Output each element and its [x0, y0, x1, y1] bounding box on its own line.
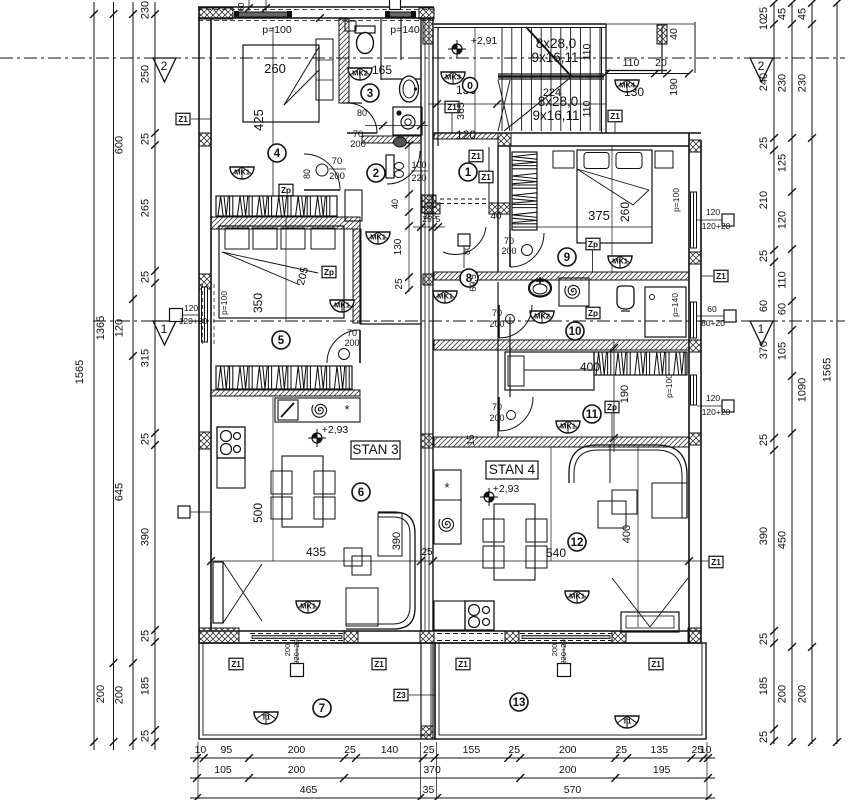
- svg-text:69,5: 69,5: [468, 274, 478, 292]
- door WC3: [347, 103, 377, 133]
- right dimension column lines: [773, 2, 775, 744]
- svg-text:3: 3: [367, 88, 373, 100]
- bath 10 top wall: [434, 272, 689, 280]
- svg-text:1: 1: [758, 322, 765, 336]
- svg-text:110: 110: [581, 100, 593, 117]
- svg-text:200: 200: [550, 644, 559, 657]
- svg-text:10: 10: [700, 744, 712, 756]
- svg-text:25: 25: [140, 271, 152, 283]
- svg-text:2: 2: [373, 168, 379, 180]
- right wall hatch blocks: [689, 140, 701, 152]
- svg-text:125: 125: [777, 154, 789, 172]
- left wall hatch blocks: [199, 133, 211, 146]
- STAN 3 label: [351, 441, 400, 459]
- Zp box room5: [322, 266, 336, 278]
- svg-text:240: 240: [758, 73, 770, 91]
- svg-text:120: 120: [706, 207, 720, 217]
- pillows room 9: [584, 153, 609, 169]
- left wall: [198, 8, 200, 643]
- interior dim line hall: [408, 140, 410, 292]
- svg-text:60: 60: [237, 2, 246, 11]
- bed room 4: [243, 45, 319, 122]
- shaft box corner: [345, 190, 362, 221]
- svg-text:400: 400: [621, 525, 633, 543]
- svg-text:80+20: 80+20: [701, 318, 725, 328]
- svg-text:210: 210: [758, 191, 770, 209]
- svg-text:70: 70: [332, 156, 343, 167]
- svg-text:p=100: p=100: [664, 374, 674, 398]
- room number 1: [459, 163, 477, 181]
- svg-text:95: 95: [221, 744, 233, 756]
- svg-text:0: 0: [467, 80, 473, 92]
- svg-text:25: 25: [140, 730, 152, 742]
- svg-text:9x16,11: 9x16,11: [532, 108, 579, 123]
- svg-text:25: 25: [758, 7, 770, 19]
- Zp box bath10: [586, 307, 600, 319]
- svg-text:200: 200: [797, 685, 809, 703]
- door bath10: [499, 305, 532, 338]
- svg-text:110: 110: [581, 43, 593, 60]
- svg-text:120+20: 120+20: [179, 316, 208, 326]
- svg-text:110: 110: [777, 271, 789, 289]
- fan MK1 corridor STAN3: [366, 232, 390, 244]
- top wall corner hatch left: [199, 8, 233, 19]
- room number 4: [268, 144, 286, 162]
- fan MK2: [348, 68, 372, 80]
- bed room 5: [219, 226, 344, 318]
- svg-text:Z1: Z1: [716, 272, 726, 281]
- svg-text:130: 130: [393, 238, 404, 255]
- Z markers terraces: [229, 658, 243, 670]
- svg-text:Zp: Zp: [588, 309, 598, 318]
- svg-text:MK1: MK1: [612, 257, 628, 266]
- right wall window bath10: [691, 302, 697, 338]
- svg-text:5: 5: [278, 335, 285, 347]
- section line 2 (dash-dot horizontal top): [0, 57, 845, 59]
- svg-text:230: 230: [140, 1, 152, 19]
- wardrobe column room4: [316, 39, 333, 100]
- svg-text:MK1: MK1: [560, 422, 576, 431]
- svg-text:350: 350: [251, 293, 265, 313]
- svg-text:1: 1: [161, 322, 168, 336]
- basin bath10: [529, 280, 551, 297]
- room number 6: [352, 483, 370, 501]
- staircase mid handrail: [498, 73, 604, 75]
- room number 5: [272, 331, 290, 349]
- spot +2,93 STAN3: [308, 429, 326, 447]
- svg-text:465: 465: [300, 784, 318, 796]
- svg-text:1090: 1090: [797, 378, 809, 402]
- svg-text:120: 120: [114, 319, 126, 337]
- svg-text:STAN 4: STAN 4: [489, 462, 536, 477]
- svg-text:MK1: MK1: [569, 592, 585, 601]
- Zp box room11: [605, 401, 619, 413]
- svg-text:8x28,0: 8x28,0: [536, 36, 577, 51]
- svg-text:60: 60: [758, 300, 770, 312]
- svg-text:9: 9: [564, 252, 570, 264]
- svg-text:185: 185: [140, 677, 152, 695]
- svg-text:315: 315: [140, 349, 152, 367]
- fan MK1 room4: [230, 167, 254, 179]
- svg-text:570: 570: [564, 784, 582, 796]
- svg-text:25: 25: [344, 744, 356, 756]
- svg-text:p=100: p=100: [219, 291, 229, 315]
- svg-text:120: 120: [706, 393, 720, 403]
- svg-text:105: 105: [214, 764, 232, 776]
- svg-text:195: 195: [653, 764, 671, 776]
- fan MK4: [615, 80, 639, 92]
- svg-text:T1: T1: [623, 717, 632, 726]
- svg-text:p=140: p=140: [670, 293, 680, 317]
- svg-text:200: 200: [329, 171, 345, 182]
- dining table STAN4: [494, 504, 535, 580]
- interior dim line y561: [211, 560, 710, 562]
- TV STAN4: [621, 612, 679, 632]
- svg-text:220: 220: [411, 173, 426, 183]
- svg-text:25: 25: [421, 547, 433, 558]
- top wall left part: [198, 6, 434, 8]
- left dimension column lines: [93, 2, 95, 750]
- svg-text:2: 2: [161, 59, 168, 73]
- svg-text:15: 15: [466, 434, 477, 446]
- svg-text:140: 140: [381, 744, 399, 756]
- svg-text:265: 265: [140, 199, 152, 217]
- stairwell bottom wall / room9 top wall: [434, 132, 701, 134]
- dim witness living12: [550, 447, 552, 561]
- section marker 2 right: [750, 58, 773, 82]
- window label left wall: [170, 309, 183, 322]
- shaft cabinet bath10 p=140: [645, 287, 686, 337]
- svg-text:200: 200: [559, 744, 577, 756]
- svg-text:600: 600: [114, 136, 126, 154]
- wall marker left y512: [178, 506, 190, 518]
- room number 11: [583, 405, 601, 423]
- room 4 dim 260: [272, 27, 274, 196]
- stove STAN4: [465, 601, 494, 630]
- TV STAN3: [213, 562, 223, 623]
- svg-text:Z1: Z1: [651, 660, 661, 669]
- door hall2 arc: [387, 151, 420, 184]
- svg-text:*: *: [444, 480, 449, 495]
- svg-text:425: 425: [251, 109, 266, 131]
- svg-text:70: 70: [347, 328, 357, 338]
- room number 12: [568, 533, 586, 551]
- svg-text:25: 25: [394, 278, 405, 290]
- svg-text:Z1: Z1: [178, 115, 188, 124]
- WC3 / shaft wall: [380, 19, 382, 80]
- Z1 left wall marker: [176, 113, 190, 125]
- svg-text:1565: 1565: [822, 358, 834, 382]
- svg-text:25: 25: [758, 731, 770, 743]
- svg-text:Zp: Zp: [607, 403, 617, 412]
- svg-text:190: 190: [668, 78, 680, 96]
- svg-text:+2,93: +2,93: [493, 483, 520, 495]
- svg-text:110: 110: [623, 57, 640, 69]
- door room4 (arc): [304, 154, 340, 190]
- svg-text:45: 45: [797, 8, 809, 20]
- stairwell top wall: [434, 23, 606, 25]
- svg-text:60: 60: [777, 303, 789, 315]
- svg-text:25: 25: [758, 137, 770, 149]
- svg-text:80: 80: [357, 108, 367, 118]
- svg-text:MK2: MK2: [534, 312, 550, 321]
- right wall window room11: [691, 375, 697, 405]
- svg-text:200: 200: [489, 319, 504, 329]
- svg-text:Z1: Z1: [471, 152, 481, 161]
- kitchen counter top row STAN3: [275, 398, 360, 422]
- svg-text:365: 365: [455, 102, 467, 120]
- hatch block hall2: [421, 195, 433, 213]
- door room11: [499, 397, 533, 431]
- svg-text:370: 370: [758, 341, 770, 359]
- svg-text:MK2: MK2: [352, 69, 368, 78]
- svg-text:120: 120: [184, 303, 198, 313]
- stove STAN3: [217, 427, 245, 458]
- svg-text:25: 25: [508, 744, 520, 756]
- room number 8: [460, 269, 478, 287]
- svg-text:1365: 1365: [95, 316, 107, 340]
- sofa STAN4: [569, 445, 687, 518]
- toilet bath10: [617, 286, 634, 309]
- svg-text:190: 190: [619, 385, 631, 403]
- svg-text:120+20: 120+20: [702, 407, 731, 417]
- washing machine WC3: [393, 107, 422, 135]
- svg-text:Z1: Z1: [374, 660, 384, 669]
- fan MK1 hall8: [433, 291, 457, 303]
- stair landing right edge: [661, 27, 663, 73]
- svg-text:T1: T1: [262, 713, 271, 722]
- svg-text:70: 70: [504, 236, 514, 246]
- svg-text:40: 40: [390, 199, 400, 209]
- room number 10: [566, 322, 584, 340]
- svg-text:105: 105: [777, 342, 789, 360]
- hall walls STAN3 lower bath: [359, 229, 361, 324]
- dim witness room5: [285, 218, 287, 320]
- svg-text:Zp: Zp: [281, 186, 291, 195]
- svg-text:10: 10: [758, 18, 770, 30]
- left wall window (glazing): [202, 287, 208, 342]
- top wall window 2: [387, 12, 414, 17]
- corridor wall STAN4 vertical: [497, 282, 499, 437]
- blanket fold room 9: [577, 169, 649, 190]
- sofa STAN3: [346, 512, 415, 629]
- wardrobe room 9 (vertical zigzag): [512, 152, 537, 230]
- svg-text:7: 7: [319, 703, 325, 715]
- svg-text:p=100: p=100: [671, 188, 681, 212]
- staircase treads: [501, 28, 503, 132]
- side tables STAN3: [344, 548, 362, 566]
- svg-text:45: 45: [777, 8, 789, 20]
- svg-text:390: 390: [391, 532, 403, 550]
- WC3 left wall: [339, 19, 349, 103]
- svg-text:25: 25: [758, 633, 770, 645]
- svg-text:4: 4: [274, 148, 281, 160]
- svg-text:10: 10: [569, 326, 582, 338]
- section line 1 (dash-dot horizontal middle): [93, 320, 845, 322]
- svg-text:MK1: MK1: [370, 233, 386, 242]
- dining table STAN3: [282, 456, 323, 527]
- door room5: [327, 330, 360, 363]
- wardrobe room 5 (zigzag band): [216, 366, 352, 389]
- svg-text:p=100: p=100: [262, 24, 292, 36]
- kitchen opening STAN4 (dashed): [437, 633, 503, 635]
- svg-text:MK1: MK1: [234, 168, 250, 177]
- sliding door STAN3 (dashed): [250, 633, 344, 635]
- svg-text:200: 200: [114, 686, 126, 704]
- svg-text:200: 200: [288, 744, 306, 756]
- svg-text:Z1: Z1: [458, 660, 468, 669]
- svg-text:200: 200: [489, 413, 504, 423]
- terrace divider: [420, 643, 422, 739]
- room number 13: [510, 693, 528, 711]
- wardrobe room 4 (zigzag band): [216, 196, 337, 216]
- svg-text:200: 200: [559, 764, 577, 776]
- svg-text:25: 25: [423, 744, 435, 756]
- spot +2,93 STAN4: [480, 488, 498, 506]
- section marker 2 left: [153, 58, 176, 82]
- svg-text:185: 185: [758, 677, 770, 695]
- svg-text:Zp: Zp: [588, 240, 598, 249]
- svg-text:9x16,11: 9x16,11: [531, 50, 578, 65]
- svg-text:20: 20: [655, 57, 667, 69]
- balcony right edge: [694, 22, 696, 73]
- fan MK1 living4: [565, 591, 589, 603]
- svg-text:13: 13: [513, 697, 526, 709]
- svg-text:260: 260: [264, 61, 286, 76]
- svg-text:120: 120: [456, 128, 476, 142]
- corridor wall strip STAN3 (hatched): [211, 217, 360, 229]
- svg-text:200: 200: [501, 246, 516, 256]
- bottom witness lines: [197, 742, 199, 799]
- room5 right wall vertical strip: [353, 229, 361, 323]
- svg-text:6: 6: [358, 487, 364, 499]
- bottom wall hatch blocks: [199, 628, 239, 643]
- svg-text:230: 230: [797, 74, 809, 92]
- svg-text:200: 200: [283, 644, 292, 657]
- bath 10 bottom wall: [434, 340, 689, 350]
- svg-text:*: *: [344, 402, 349, 417]
- svg-text:450: 450: [777, 531, 789, 549]
- svg-text:200: 200: [777, 685, 789, 703]
- door room9: [510, 233, 544, 267]
- room number 9: [558, 248, 576, 266]
- svg-text:35: 35: [423, 784, 435, 796]
- window label right bath10: [724, 310, 736, 322]
- svg-text:12: 12: [571, 537, 584, 549]
- basin WC3: [400, 76, 419, 102]
- svg-text:390: 390: [140, 528, 152, 546]
- terrace 13 fan: [615, 716, 639, 728]
- room5/6 wall strip 2: [211, 390, 360, 396]
- sliding door STAN4 (dashed): [520, 633, 612, 635]
- svg-text:Z1: Z1: [481, 173, 491, 182]
- svg-text:435: 435: [306, 545, 326, 559]
- Z1 right end: [709, 556, 723, 568]
- svg-text:25: 25: [758, 434, 770, 446]
- svg-text:Z1: Z1: [711, 558, 721, 567]
- party wall between STAN3 and STAN4: [420, 19, 422, 631]
- svg-text:230: 230: [777, 74, 789, 92]
- svg-text:220+20: 220+20: [292, 639, 301, 664]
- svg-text:8x28,0: 8x28,0: [538, 94, 579, 109]
- door hall2 leaf: [386, 155, 394, 178]
- svg-text:70: 70: [492, 402, 502, 412]
- right wall: [688, 133, 690, 643]
- +2,91 spot: [448, 40, 466, 58]
- coffee tables STAN4: [598, 501, 626, 528]
- svg-text:200: 200: [95, 685, 107, 703]
- shower bath10: [559, 278, 589, 306]
- svg-text:Zp: Zp: [324, 268, 334, 277]
- svg-text:2: 2: [758, 59, 765, 73]
- svg-text:370: 370: [423, 764, 441, 776]
- svg-text:MK3: MK3: [445, 73, 461, 82]
- svg-text:500: 500: [251, 503, 265, 523]
- svg-text:p=140: p=140: [390, 24, 420, 36]
- room number 3: [361, 84, 379, 102]
- svg-text:Z3: Z3: [396, 691, 406, 700]
- toilet WC3: [355, 26, 375, 54]
- terrace 7 outline: [199, 643, 435, 739]
- bottom dimension rows: [190, 757, 715, 759]
- svg-text:120: 120: [777, 211, 789, 229]
- svg-text:645: 645: [114, 483, 126, 501]
- svg-text:MK1: MK1: [334, 301, 350, 310]
- terrace 13 outline: [435, 643, 706, 739]
- svg-text:25: 25: [140, 133, 152, 145]
- svg-text:165: 165: [372, 63, 392, 77]
- dim witness room6: [272, 397, 274, 561]
- fan MK2 bath10: [530, 311, 554, 323]
- svg-text:220+20: 220+20: [559, 639, 568, 664]
- section marker 1 right: [750, 321, 773, 345]
- svg-text:250: 250: [140, 65, 152, 83]
- svg-text:1: 1: [465, 167, 472, 179]
- staircase diagonal: [526, 27, 571, 76]
- STAN 4 label: [486, 461, 538, 479]
- Zp box room9: [586, 238, 600, 250]
- fan MK1 room11: [556, 421, 580, 433]
- svg-text:540: 540: [546, 546, 566, 560]
- svg-text:80: 80: [462, 245, 472, 255]
- svg-text:25: 25: [758, 250, 770, 262]
- svg-text:Z1: Z1: [231, 660, 241, 669]
- svg-text:200: 200: [344, 338, 359, 348]
- svg-text:155: 155: [463, 744, 481, 756]
- fan MK1 room5: [330, 300, 354, 312]
- stairwell left wall: [437, 27, 439, 146]
- terrace 7 fan: [254, 712, 278, 724]
- section marker 1 left: [153, 321, 176, 345]
- right wall window room9: [691, 192, 697, 248]
- room 11 bottom wall: [434, 437, 689, 447]
- svg-text:400: 400: [580, 360, 600, 374]
- svg-text:STAN 3: STAN 3: [352, 442, 398, 457]
- svg-text:260: 260: [618, 202, 632, 222]
- kitchen counter STAN4: [434, 470, 461, 544]
- svg-text:40: 40: [668, 28, 680, 40]
- circled 0 near stairs: [463, 78, 478, 93]
- svg-text:135: 135: [651, 744, 669, 756]
- svg-text:25: 25: [140, 433, 152, 445]
- nightstands room 9: [553, 151, 574, 168]
- room number 7: [313, 699, 331, 717]
- toilet hall2: [362, 136, 421, 143]
- dim witness room9: [611, 146, 613, 272]
- svg-text:200: 200: [288, 764, 306, 776]
- bed room 9: [577, 150, 652, 243]
- svg-text:1565: 1565: [74, 360, 86, 384]
